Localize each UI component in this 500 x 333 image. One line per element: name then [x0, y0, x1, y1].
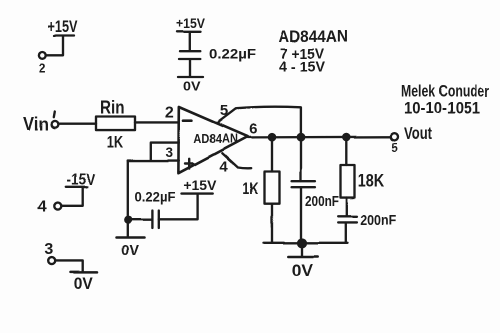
- svg-text:2: 2: [39, 62, 46, 76]
- op-amp non-inverting input plus sign: [185, 159, 193, 169]
- junction dot output/C3: [298, 134, 304, 140]
- wire R3 to C4: [346, 198, 348, 216]
- capacitor C4 200nF top plate: [338, 215, 357, 217]
- wire Rin to op-amp pin 2: [135, 121, 179, 123]
- svg-text:0V: 0V: [121, 242, 138, 259]
- svg-text:5: 5: [391, 143, 398, 155]
- ground 0V bar (output network): [288, 255, 317, 258]
- ground 0V bar (op-amp input): [116, 236, 145, 239]
- svg-text:+15V: +15V: [48, 17, 78, 36]
- wire R2 to ground rail: [271, 204, 273, 243]
- svg-text:0.22µF: 0.22µF: [209, 46, 256, 62]
- svg-text:Vout: Vout: [404, 124, 432, 143]
- wire op-amp pin 5 to output node: [217, 107, 301, 137]
- svg-text:4: 4: [219, 159, 228, 176]
- wire +15V rail to C1: [189, 32, 191, 51]
- svg-text:10-10-1051: 10-10-1051: [404, 99, 480, 117]
- svg-text:AD844AN: AD844AN: [278, 28, 348, 46]
- wire output to R2: [271, 137, 273, 172]
- svg-text:Rin: Rin: [100, 98, 125, 118]
- svg-text:200nF: 200nF: [360, 212, 396, 229]
- ground symbol stem (output network): [301, 243, 303, 255]
- wire C2 to +15V rail: [159, 194, 198, 219]
- svg-text:0V: 0V: [183, 79, 201, 94]
- svg-text:2: 2: [165, 105, 174, 122]
- capacitor C2 0.22uF left plate: [151, 211, 153, 229]
- wire ground rail: [264, 242, 348, 244]
- wire junction to bypass capacitor C2: [128, 219, 152, 221]
- svg-text:+15V: +15V: [183, 177, 217, 193]
- svg-text:0V: 0V: [292, 260, 314, 280]
- junction dot output/R3: [343, 134, 349, 140]
- svg-text:0.22µF: 0.22µF: [135, 189, 176, 205]
- capacitor C1 0.22uF bottom plate: [179, 58, 200, 60]
- resistor Rin body: [96, 117, 135, 131]
- svg-text:AD84AN: AD84AN: [193, 132, 237, 146]
- terminal 2 circle: [39, 52, 46, 59]
- junction dot output/R2: [269, 134, 275, 140]
- svg-text:Melek Conuder: Melek Conuder: [401, 82, 489, 101]
- wire output rail: [247, 136, 391, 139]
- wire terminal 4 to -15V rail: [62, 188, 83, 206]
- node 1 tick above Vin terminal: [54, 112, 55, 118]
- +15V rail bar (C1 top): [177, 31, 201, 33]
- svg-text:5: 5: [220, 102, 228, 119]
- op-amp U1 AD844AN triangle: [178, 107, 247, 173]
- svg-text:18K: 18K: [358, 171, 384, 191]
- capacitor C3 200nF top plate: [292, 180, 315, 182]
- wire C3 to ground rail: [300, 187, 302, 242]
- junction dot ground rail: [298, 239, 306, 247]
- capacitor C1 0.22uF top plate: [180, 50, 200, 52]
- resistor R3 18K body: [341, 165, 355, 198]
- terminal Vout circle: [391, 133, 398, 140]
- svg-text:3: 3: [44, 241, 53, 258]
- svg-text:0V: 0V: [74, 274, 93, 292]
- svg-text:1K: 1K: [107, 134, 123, 152]
- pin 3 box wire: [128, 143, 179, 161]
- 0V rail bar (terminal 3): [71, 271, 98, 274]
- 0V rail bar (C1 bottom): [178, 76, 203, 78]
- svg-text:3: 3: [166, 145, 174, 160]
- resistor R2 1K body: [265, 172, 280, 204]
- terminal Vin circle: [52, 121, 59, 128]
- +15V rail bar (terminal 2): [54, 34, 74, 36]
- svg-text:4 - 15V: 4 - 15V: [279, 59, 325, 76]
- wire terminal 3 to 0V bar: [55, 260, 82, 271]
- svg-text:Vin: Vin: [24, 114, 50, 134]
- terminal 4 circle: [54, 203, 61, 210]
- capacitor C3 200nF bottom plate: [292, 186, 315, 188]
- terminal 3 circle: [48, 257, 55, 264]
- op-amp inverting input minus sign: [183, 119, 191, 122]
- +15V rail bar (bypass): [182, 192, 213, 194]
- wire terminal 2 to +15V rail: [46, 37, 63, 56]
- wire pin 3 node to ground: [127, 161, 129, 237]
- svg-text:1K: 1K: [242, 179, 258, 198]
- wire output to R3: [345, 137, 347, 165]
- wire C1 to 0V rail: [189, 59, 191, 76]
- svg-text:200nF: 200nF: [305, 193, 339, 210]
- capacitor C2 0.22uF right plate: [158, 211, 160, 229]
- wire output to C3: [300, 137, 302, 181]
- svg-text:6: 6: [249, 120, 257, 137]
- -15V rail bar (terminal 4): [66, 186, 87, 188]
- wire C4 to ground rail: [345, 223, 347, 242]
- wire op-amp pin 4 stub: [222, 153, 251, 168]
- junction dot (pin3 / bypass cap / ground): [125, 217, 131, 223]
- svg-text:4: 4: [38, 199, 47, 216]
- capacitor C4 200nF bottom plate: [338, 221, 357, 223]
- wire Vin terminal to Rin: [58, 123, 96, 125]
- svg-text:+15V: +15V: [176, 15, 206, 31]
